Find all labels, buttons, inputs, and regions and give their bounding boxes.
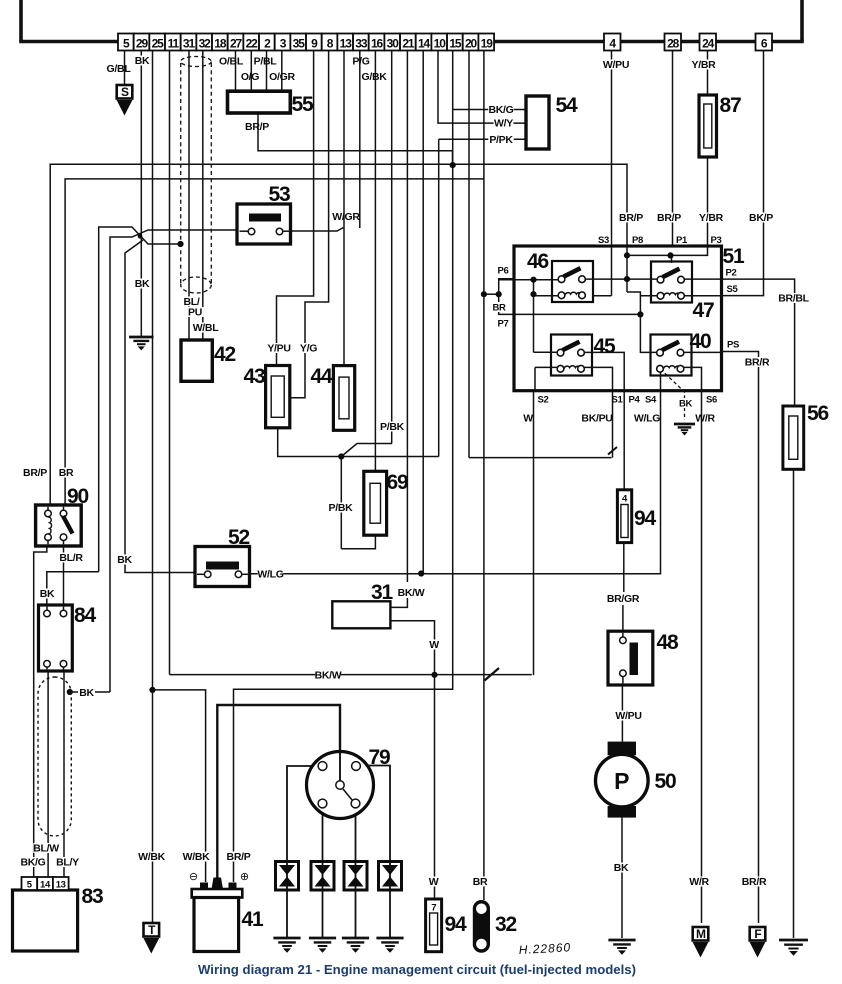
svg-text:BR: BR bbox=[59, 467, 74, 479]
svg-text:PU: PU bbox=[188, 307, 202, 319]
svg-text:W: W bbox=[429, 876, 439, 888]
svg-text:84: 84 bbox=[74, 604, 96, 627]
svg-text:32: 32 bbox=[199, 37, 212, 51]
svg-text:M: M bbox=[696, 927, 706, 941]
svg-text:BK: BK bbox=[40, 588, 55, 600]
svg-text:27: 27 bbox=[230, 37, 243, 51]
svg-text:BR/P: BR/P bbox=[227, 851, 251, 863]
svg-text:BK: BK bbox=[135, 278, 150, 290]
svg-text:W/PU: W/PU bbox=[603, 59, 629, 71]
svg-text:O/BL: O/BL bbox=[219, 56, 244, 68]
svg-text:S2: S2 bbox=[537, 395, 548, 406]
svg-text:O/GR: O/GR bbox=[269, 71, 295, 83]
svg-text:BR/P: BR/P bbox=[619, 212, 643, 224]
svg-text:BL/R: BL/R bbox=[59, 552, 83, 564]
svg-text:7: 7 bbox=[431, 903, 436, 914]
svg-text:41: 41 bbox=[242, 908, 264, 931]
svg-text:69: 69 bbox=[387, 471, 408, 494]
svg-text:94: 94 bbox=[445, 913, 467, 936]
svg-text:BK: BK bbox=[79, 687, 94, 699]
svg-text:P3: P3 bbox=[710, 235, 721, 246]
svg-text:19: 19 bbox=[481, 37, 494, 51]
svg-text:P/G: P/G bbox=[352, 56, 369, 68]
svg-text:28: 28 bbox=[667, 37, 680, 51]
svg-text:46: 46 bbox=[527, 250, 548, 273]
svg-text:13: 13 bbox=[56, 880, 66, 891]
svg-text:BK: BK bbox=[614, 862, 629, 874]
svg-text:10: 10 bbox=[434, 37, 447, 51]
svg-text:P1: P1 bbox=[676, 235, 688, 246]
svg-text:BK: BK bbox=[679, 399, 693, 410]
svg-text:F: F bbox=[754, 927, 761, 941]
svg-text:S4: S4 bbox=[645, 395, 657, 406]
svg-text:31: 31 bbox=[183, 37, 196, 51]
svg-text:BR/R: BR/R bbox=[742, 876, 767, 888]
svg-text:30: 30 bbox=[387, 37, 400, 51]
svg-text:BK/W: BK/W bbox=[398, 587, 425, 599]
svg-text:53: 53 bbox=[269, 183, 290, 206]
svg-text:15: 15 bbox=[449, 37, 462, 51]
svg-text:G/BL: G/BL bbox=[107, 63, 132, 75]
svg-text:54: 54 bbox=[556, 94, 578, 117]
svg-text:Y/PU: Y/PU bbox=[267, 343, 290, 355]
svg-text:S1: S1 bbox=[611, 395, 623, 406]
svg-text:BK/G: BK/G bbox=[488, 104, 513, 116]
svg-text:⊕: ⊕ bbox=[240, 871, 249, 883]
svg-text:47: 47 bbox=[693, 299, 714, 322]
svg-text:BK/P: BK/P bbox=[749, 212, 773, 224]
svg-text:P2: P2 bbox=[725, 268, 736, 279]
svg-text:S3: S3 bbox=[598, 235, 609, 246]
svg-text:P/PK: P/PK bbox=[489, 134, 513, 146]
svg-text:P7: P7 bbox=[497, 319, 508, 330]
svg-text:50: 50 bbox=[655, 770, 676, 793]
svg-text:BL/Y: BL/Y bbox=[56, 857, 79, 869]
svg-text:Y/BR: Y/BR bbox=[692, 59, 717, 71]
svg-text:BR: BR bbox=[473, 876, 488, 888]
svg-text:21: 21 bbox=[402, 37, 415, 51]
svg-text:H.22860: H.22860 bbox=[518, 940, 571, 957]
svg-text:16: 16 bbox=[371, 37, 384, 51]
svg-text:20: 20 bbox=[465, 37, 478, 51]
svg-text:94: 94 bbox=[634, 507, 656, 530]
svg-text:W: W bbox=[429, 639, 439, 651]
svg-text:51: 51 bbox=[723, 245, 745, 268]
svg-text:W/R: W/R bbox=[695, 413, 715, 425]
svg-text:90: 90 bbox=[67, 485, 88, 508]
svg-text:87: 87 bbox=[720, 94, 741, 117]
svg-text:BR/P: BR/P bbox=[245, 121, 269, 133]
svg-text:BK/W: BK/W bbox=[315, 670, 342, 682]
svg-text:29: 29 bbox=[136, 37, 149, 51]
svg-text:13: 13 bbox=[340, 37, 353, 51]
svg-text:BK/PU: BK/PU bbox=[581, 413, 612, 425]
svg-text:S5: S5 bbox=[726, 284, 738, 295]
svg-text:52: 52 bbox=[228, 526, 249, 549]
svg-text:W/Y: W/Y bbox=[494, 118, 513, 130]
svg-text:W/LG: W/LG bbox=[634, 413, 660, 425]
svg-text:P/BK: P/BK bbox=[380, 421, 405, 433]
svg-text:11: 11 bbox=[168, 37, 180, 51]
svg-text:14: 14 bbox=[40, 880, 51, 891]
svg-text:W/BL: W/BL bbox=[193, 322, 220, 334]
svg-text:BR/P: BR/P bbox=[23, 467, 47, 479]
svg-text:W/BK: W/BK bbox=[138, 851, 166, 863]
svg-text:18: 18 bbox=[214, 37, 227, 51]
svg-text:W/BK: W/BK bbox=[183, 851, 211, 863]
svg-text:40: 40 bbox=[690, 330, 711, 353]
svg-text:79: 79 bbox=[369, 746, 390, 769]
svg-text:55: 55 bbox=[292, 93, 314, 116]
svg-text:14: 14 bbox=[418, 37, 431, 51]
svg-text:Y/G: Y/G bbox=[300, 343, 317, 355]
svg-text:W: W bbox=[523, 413, 533, 425]
svg-text:W/R: W/R bbox=[689, 876, 709, 888]
svg-text:Y/BR: Y/BR bbox=[699, 212, 724, 224]
svg-text:P/BK: P/BK bbox=[329, 502, 354, 514]
svg-text:P: P bbox=[614, 768, 629, 794]
svg-text:24: 24 bbox=[702, 37, 715, 51]
svg-text:Wiring diagram 21 - Engine man: Wiring diagram 21 - Engine management ci… bbox=[198, 962, 636, 977]
svg-text:O/G: O/G bbox=[241, 71, 259, 83]
svg-text:56: 56 bbox=[807, 402, 828, 425]
svg-text:⊖: ⊖ bbox=[189, 871, 198, 883]
svg-text:48: 48 bbox=[657, 631, 679, 654]
svg-text:BR/R: BR/R bbox=[745, 357, 770, 369]
svg-text:P6: P6 bbox=[497, 266, 508, 277]
svg-text:35: 35 bbox=[293, 37, 306, 51]
svg-text:BK: BK bbox=[117, 554, 132, 566]
svg-text:BR: BR bbox=[492, 303, 506, 314]
svg-text:43: 43 bbox=[244, 365, 265, 388]
svg-text:PS: PS bbox=[727, 340, 739, 351]
svg-text:P4: P4 bbox=[628, 395, 640, 406]
svg-text:W/PU: W/PU bbox=[615, 710, 641, 722]
svg-text:P8: P8 bbox=[632, 235, 643, 246]
svg-text:BR/P: BR/P bbox=[657, 212, 681, 224]
svg-text:44: 44 bbox=[311, 365, 333, 388]
svg-text:33: 33 bbox=[355, 37, 368, 51]
svg-text:BR/BL: BR/BL bbox=[778, 293, 809, 305]
svg-text:S: S bbox=[121, 85, 129, 99]
svg-text:45: 45 bbox=[594, 335, 616, 358]
svg-text:W/GR: W/GR bbox=[332, 211, 360, 223]
svg-text:S6: S6 bbox=[706, 395, 717, 406]
svg-text:BK: BK bbox=[135, 55, 150, 67]
svg-text:G/BK: G/BK bbox=[361, 71, 387, 83]
svg-text:BR/GR: BR/GR bbox=[607, 593, 640, 605]
svg-text:BL/W: BL/W bbox=[33, 843, 59, 855]
svg-text:31: 31 bbox=[371, 581, 393, 604]
svg-text:22: 22 bbox=[246, 37, 259, 51]
svg-text:32: 32 bbox=[495, 913, 516, 936]
svg-text:83: 83 bbox=[82, 885, 103, 908]
svg-text:42: 42 bbox=[214, 343, 235, 366]
svg-text:W/LG: W/LG bbox=[257, 569, 283, 581]
svg-text:25: 25 bbox=[152, 37, 165, 51]
svg-text:BK/G: BK/G bbox=[20, 857, 45, 869]
svg-text:P/BL: P/BL bbox=[254, 56, 278, 68]
